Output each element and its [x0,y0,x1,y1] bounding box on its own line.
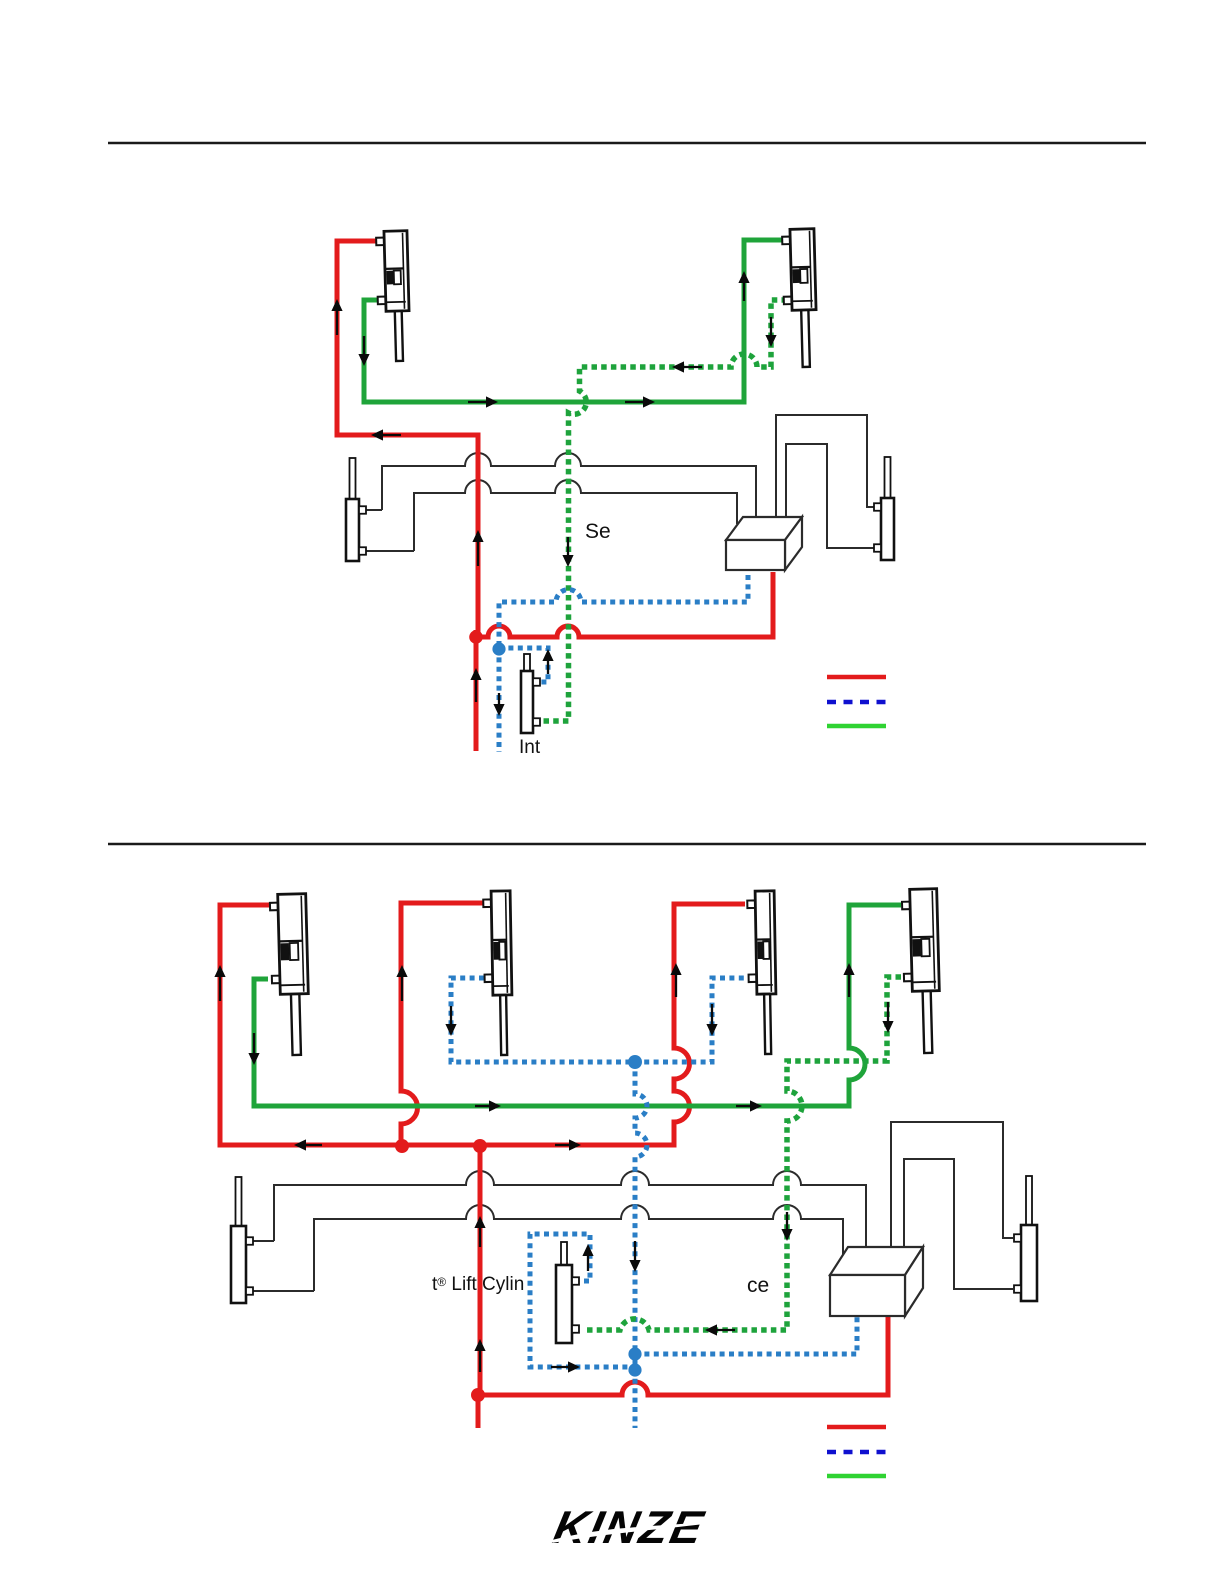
svg-text:Se: Se [585,520,611,543]
svg-text:Int: Int [519,737,541,758]
svg-text:KINZE: KINZE [549,1501,710,1552]
svg-text:t® Lift Cylin: t® Lift Cylin [432,1274,524,1295]
svg-text:ce: ce [747,1274,769,1297]
